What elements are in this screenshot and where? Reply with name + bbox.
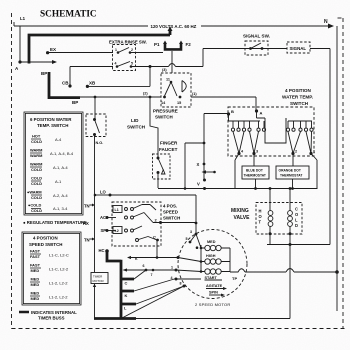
finger faucet contacts xyxy=(157,157,160,160)
node 4 xyxy=(175,278,178,281)
svg-text:A-4: A-4 xyxy=(55,137,62,142)
svg-text:D: D xyxy=(295,223,298,228)
svg-text:MED: MED xyxy=(31,268,40,273)
terminal A xyxy=(255,109,258,112)
svg-text:L2: L2 xyxy=(115,229,119,233)
svg-text:6 POSITION WATER: 6 POSITION WATER xyxy=(30,117,72,122)
svg-text:CB: CB xyxy=(62,81,69,86)
wire faucet loop xyxy=(158,143,318,189)
terminal B xyxy=(227,112,230,115)
svg-text:3: 3 xyxy=(256,150,258,154)
signal xyxy=(287,42,310,53)
motor switch arm xyxy=(190,234,201,248)
svg-text:2: 2 xyxy=(131,48,133,52)
svg-text:SWITCH: SWITCH xyxy=(163,216,180,221)
svg-text:MED: MED xyxy=(31,282,40,287)
wire signal drop xyxy=(310,49,330,245)
svg-text:F2: F2 xyxy=(186,42,192,47)
svg-text:SWITCH: SWITCH xyxy=(127,125,146,130)
svg-text:ORANGE DOT: ORANGE DOT xyxy=(279,169,301,173)
wire diagonal C to 6 xyxy=(134,270,146,279)
svg-text:FAST: FAST xyxy=(30,249,41,254)
svg-text:AGITATE: AGITATE xyxy=(206,284,223,288)
wire timer contact column xyxy=(203,114,205,181)
coil COLD solenoid xyxy=(289,189,291,319)
svg-text:K: K xyxy=(125,293,128,298)
timer motor xyxy=(91,273,108,284)
junction y143 xyxy=(203,142,206,145)
svg-text:●WARM: ●WARM xyxy=(27,190,42,195)
svg-text:COLD: COLD xyxy=(31,195,42,200)
node 6 xyxy=(145,269,148,272)
node A xyxy=(18,60,21,63)
svg-text:4 POSITION: 4 POSITION xyxy=(33,236,58,241)
svg-text:7: 7 xyxy=(151,273,153,277)
wire LO stub xyxy=(95,194,110,196)
svg-text:6: 6 xyxy=(143,264,145,268)
svg-text:INDICATES INTERNAL: INDICATES INTERNAL xyxy=(31,310,77,315)
svg-text:WARM: WARM xyxy=(30,148,42,153)
svg-text:C: C xyxy=(153,235,156,240)
svg-text:FAST: FAST xyxy=(30,254,41,259)
svg-text:SPIN: SPIN xyxy=(209,291,218,295)
wire diagonal K to 4 xyxy=(134,279,176,292)
svg-text:MED: MED xyxy=(31,291,40,296)
svg-text:WARM: WARM xyxy=(30,162,42,167)
terminal L2 xyxy=(113,227,122,234)
svg-text:HOT: HOT xyxy=(32,134,41,139)
speed switch box xyxy=(112,202,161,246)
svg-text:P1: P1 xyxy=(154,42,160,47)
node N arrow xyxy=(328,24,334,29)
pressure switch xyxy=(161,73,191,107)
thermostats xyxy=(235,154,239,189)
wire P1F2 to pressure switch xyxy=(171,51,173,73)
svg-text:START: START xyxy=(205,276,218,280)
wire valve common bar xyxy=(267,244,330,246)
lid switch xyxy=(86,114,106,137)
svg-text:BLUE DOT: BLUE DOT xyxy=(246,169,263,173)
junction finger faucet feed xyxy=(149,96,152,99)
svg-text:SIGNAL SW.: SIGNAL SW. xyxy=(243,34,270,39)
speed switch contacts row L1 xyxy=(125,208,128,211)
wire 7 row xyxy=(127,269,176,271)
svg-text:TIMER BUSS: TIMER BUSS xyxy=(38,316,65,321)
svg-text:COLD: COLD xyxy=(31,181,42,186)
timer buss thick P1 F2 xyxy=(164,44,183,50)
wire Y row xyxy=(131,257,178,259)
svg-text:TP: TP xyxy=(232,276,237,281)
wire diagonal L to 8 xyxy=(136,286,184,304)
timer buss thick HC ladder xyxy=(94,250,136,319)
thermostat blue dot xyxy=(242,166,269,179)
svg-text:8: 8 xyxy=(180,282,182,286)
motor circle xyxy=(178,230,247,299)
svg-text:COLD: COLD xyxy=(31,167,42,172)
node CB xyxy=(68,84,71,87)
svg-text:PRESSURE: PRESSURE xyxy=(153,109,178,114)
svg-text:L1: L1 xyxy=(115,208,119,212)
motor windings xyxy=(200,245,202,272)
node 8 xyxy=(183,285,186,288)
svg-text:● REGULATED TEMPERATURE: ● REGULATED TEMPERATURE xyxy=(23,220,87,225)
wire LO to motor xyxy=(110,195,196,234)
pressure switch diaphragm xyxy=(182,81,186,93)
signal switch contacts xyxy=(249,47,252,50)
svg-text:FAUCET: FAUCET xyxy=(159,147,178,152)
coil HOT solenoid xyxy=(269,189,271,245)
node TP xyxy=(230,269,245,272)
water temp table xyxy=(24,112,83,215)
svg-text:11: 11 xyxy=(166,78,170,82)
svg-text:WARM: WARM xyxy=(30,153,42,158)
svg-text:HIGH: HIGH xyxy=(206,254,216,258)
svg-text:B: B xyxy=(231,109,234,114)
svg-text:A-2, A-4: A-2, A-4 xyxy=(53,193,68,198)
svg-text:2: 2 xyxy=(295,150,297,154)
wire pressure out to A terminal xyxy=(191,97,256,111)
svg-text:N: N xyxy=(324,19,328,25)
thermostat orange dot xyxy=(276,166,309,179)
svg-text:3: 3 xyxy=(190,230,192,234)
speed switch table xyxy=(22,232,81,305)
svg-text:TN: TN xyxy=(84,204,90,209)
wire bottom bus xyxy=(136,318,290,320)
node 3 motor selector xyxy=(195,233,198,236)
svg-text:WATER TEMP.: WATER TEMP. xyxy=(282,95,313,100)
svg-text:(2): (2) xyxy=(143,92,148,96)
wire 120V top bus xyxy=(14,25,148,27)
water temp switch contact arms xyxy=(233,132,244,154)
svg-text:RX: RX xyxy=(83,221,89,226)
svg-text:SPEED SWITCH: SPEED SWITCH xyxy=(29,242,62,247)
svg-text:1: 1 xyxy=(171,266,173,270)
svg-text:LO: LO xyxy=(100,190,107,195)
svg-text:AC: AC xyxy=(100,215,106,220)
contact X xyxy=(203,163,206,166)
svg-text:A-1: A-1 xyxy=(55,179,62,184)
svg-text:COLD: COLD xyxy=(31,176,42,181)
svg-text:5: 5 xyxy=(131,62,133,66)
wire arrow from node A xyxy=(20,61,52,63)
wire EX xyxy=(48,52,113,54)
svg-text:EX: EX xyxy=(50,47,56,52)
wire BP row to pressure switch (2) xyxy=(80,96,161,98)
finger faucet xyxy=(150,97,158,158)
junction lid switch feed xyxy=(94,96,97,99)
svg-text:L1-2, L2-2: L1-2, L2-2 xyxy=(49,281,68,286)
lid switch contacts N.O. xyxy=(93,118,96,121)
arrow contact at 172 xyxy=(206,171,214,173)
svg-text:TIMER: TIMER xyxy=(93,275,103,279)
svg-text:A: A xyxy=(260,111,263,116)
wire lid down bus xyxy=(94,135,96,273)
svg-text:H: H xyxy=(259,209,262,214)
legend internal timer buss xyxy=(19,311,29,314)
svg-text:MED: MED xyxy=(31,277,40,282)
svg-text:THERMOSTAT: THERMOSTAT xyxy=(280,174,302,178)
svg-text:120 VOLTS A.C. 60 HZ: 120 VOLTS A.C. 60 HZ xyxy=(151,24,197,29)
svg-text:EXTRA RINSE SW.: EXTRA RINSE SW. xyxy=(109,40,147,45)
svg-text:●COLD: ●COLD xyxy=(28,203,42,208)
timer buss thick BP xyxy=(48,72,80,98)
svg-text:MOTOR: MOTOR xyxy=(93,279,105,283)
svg-text:THERMOSTAT: THERMOSTAT xyxy=(244,174,266,178)
junction TP to N line xyxy=(335,270,339,274)
svg-text:L1-C, L2-C: L1-C, L2-C xyxy=(49,253,69,258)
svg-text:1: 1 xyxy=(313,150,315,154)
svg-text:MIXING: MIXING xyxy=(231,208,249,214)
svg-text:SWITCH: SWITCH xyxy=(155,115,173,120)
svg-text:BP: BP xyxy=(41,71,47,76)
svg-text:L1-C, L2-2: L1-C, L2-2 xyxy=(49,267,69,272)
wire TP to N xyxy=(245,271,336,273)
svg-text:4: 4 xyxy=(115,62,117,66)
svg-text:A-1, A-4, B-4: A-1, A-4, B-4 xyxy=(50,151,74,156)
svg-text:N.O.: N.O. xyxy=(96,141,104,145)
speed switch contact C xyxy=(136,239,139,242)
svg-text:(3): (3) xyxy=(162,68,167,72)
svg-text:SIGNAL: SIGNAL xyxy=(290,46,307,51)
svg-text:MED: MED xyxy=(31,296,40,301)
svg-text:15: 15 xyxy=(177,101,181,105)
svg-text:COLD: COLD xyxy=(31,139,42,144)
svg-text:2 SPEED MOTOR: 2 SPEED MOTOR xyxy=(195,302,230,307)
svg-text:X: X xyxy=(197,162,200,167)
svg-text:BP: BP xyxy=(72,100,78,105)
switch contacts 1-2 xyxy=(117,51,120,54)
svg-text:L1-2, L2-2: L1-2, L2-2 xyxy=(49,295,68,300)
svg-text:TEMP. SWITCH: TEMP. SWITCH xyxy=(37,123,68,128)
node EX xyxy=(46,51,49,54)
svg-text:A-1, A-4: A-1, A-4 xyxy=(53,165,68,170)
speed switch contacts row L2 xyxy=(125,229,128,232)
junction dots on bus xyxy=(254,187,257,190)
svg-text:SP: SP xyxy=(101,228,107,233)
svg-text:SPEED: SPEED xyxy=(163,210,178,215)
wire rinse row to signal riser (hop over pressure feed) xyxy=(150,66,169,68)
junction speed switch output xyxy=(195,222,198,225)
svg-text:FINGER: FINGER xyxy=(160,141,178,146)
svg-text:(1): (1) xyxy=(192,92,197,96)
svg-text:VALVE: VALVE xyxy=(234,215,251,221)
wire B feed xyxy=(204,113,229,115)
terminals 4 3 2 1 xyxy=(237,152,240,155)
svg-text:V: V xyxy=(197,182,200,187)
svg-text:5: 5 xyxy=(186,237,188,241)
svg-text:4 POS.: 4 POS. xyxy=(163,204,177,209)
wire diagonal buss to 8 xyxy=(121,286,184,319)
svg-text:C: C xyxy=(125,281,128,286)
svg-text:MED: MED xyxy=(207,240,216,244)
pressure switch contact arms xyxy=(170,81,173,84)
svg-text:FAST: FAST xyxy=(30,263,41,268)
svg-text:K: K xyxy=(135,257,138,261)
timer buss thick L1 xyxy=(28,31,170,64)
svg-text:4 POSITION: 4 POSITION xyxy=(285,88,311,93)
node 5 xyxy=(189,241,192,244)
svg-text:C: C xyxy=(295,207,298,212)
svg-text:XB: XB xyxy=(89,81,96,86)
water temp switch internal bars xyxy=(229,114,261,121)
node XB xyxy=(86,85,89,88)
svg-text:SCHEMATIC: SCHEMATIC xyxy=(40,10,97,20)
speed switch contacts row AC xyxy=(125,216,128,219)
svg-text:HC: HC xyxy=(99,248,105,253)
svg-text:TN: TN xyxy=(84,238,90,243)
switch contacts 4-5 xyxy=(116,65,119,68)
svg-text:L1: L1 xyxy=(20,16,26,21)
wire L1 drop xyxy=(19,26,21,62)
svg-text:SWITCH: SWITCH xyxy=(290,101,309,106)
svg-text:1: 1 xyxy=(115,48,117,52)
junction XB riser xyxy=(149,65,152,68)
wire N drop xyxy=(336,26,338,311)
svg-text:LID: LID xyxy=(131,118,139,123)
wire speed out 2 xyxy=(161,222,197,224)
svg-text:A-1, 3-4: A-1, 3-4 xyxy=(53,206,68,211)
terminal L1 xyxy=(113,206,122,213)
